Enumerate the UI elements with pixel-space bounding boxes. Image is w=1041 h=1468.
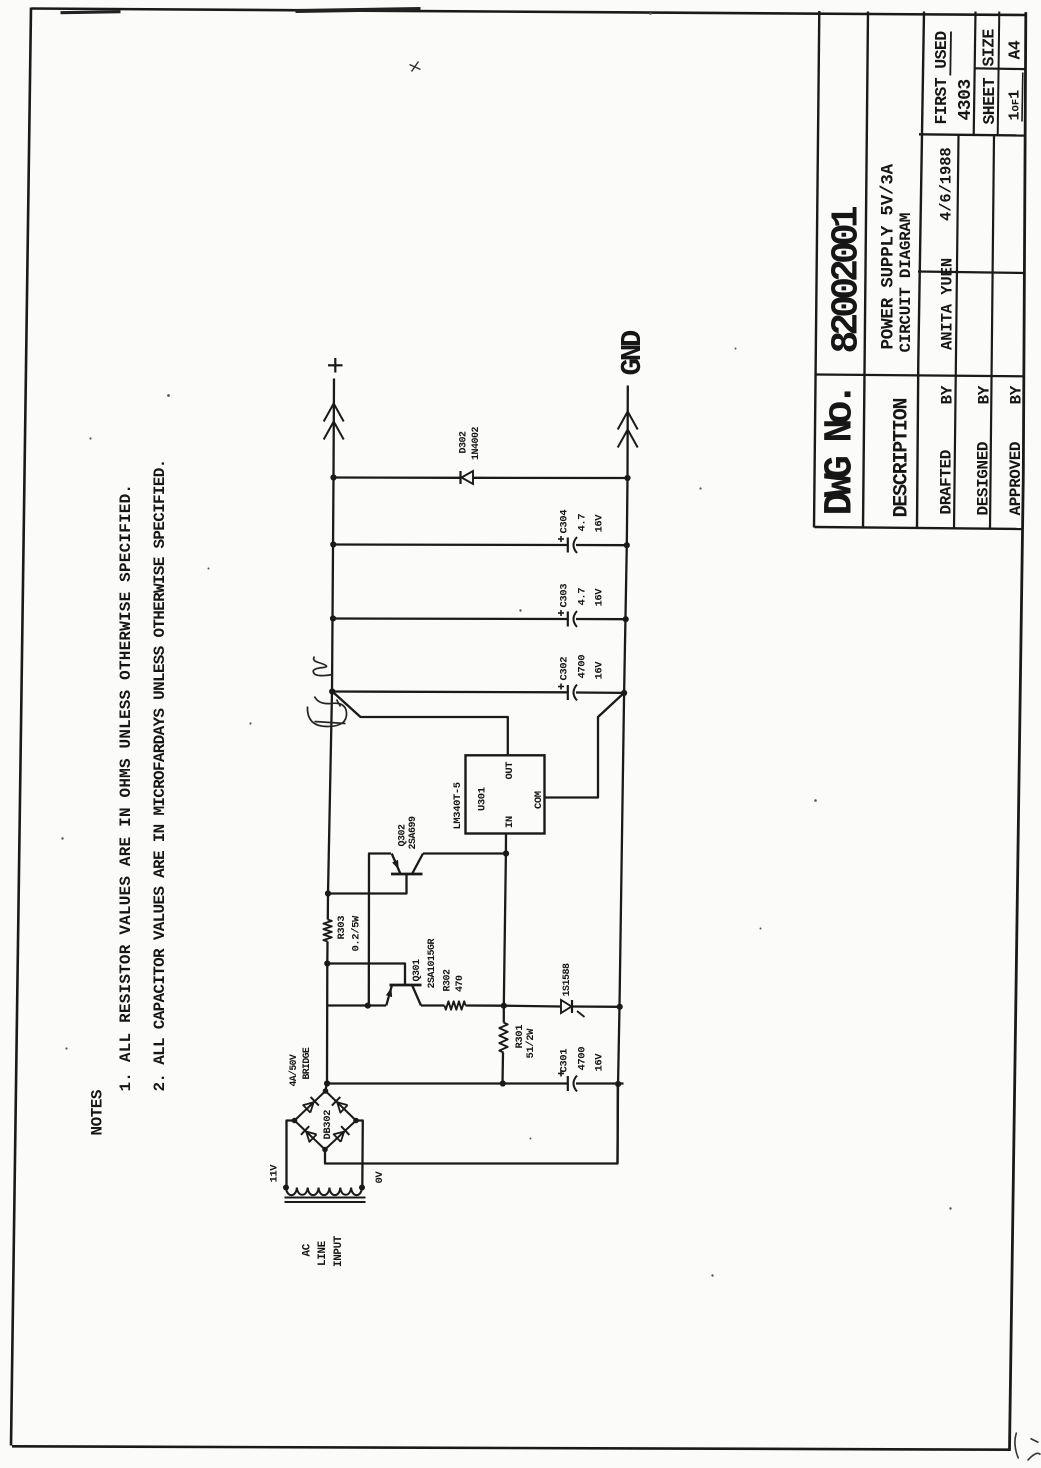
label AC LINE INPUT	[301, 1235, 345, 1267]
svg-text:470: 470	[455, 974, 466, 991]
node C304 top junction	[330, 541, 336, 547]
svg-text:11V: 11V	[268, 1163, 280, 1182]
diode D301 1S1588	[561, 1000, 585, 1017]
svg-text:Q301: Q301	[412, 958, 423, 981]
svg-text:4.7: 4.7	[576, 513, 588, 531]
svg-text:DWG No.: DWG No.	[818, 388, 863, 515]
wire input junction to D301	[503, 1004, 560, 1007]
svg-text:BY: BY	[975, 385, 993, 404]
svg-text:51/2W: 51/2W	[525, 1027, 537, 1058]
node C303 ground junction	[622, 616, 628, 622]
svg-text:82002001: 82002001	[825, 206, 868, 353]
label + C303 4.7 16V	[558, 583, 606, 615]
svg-text:BY: BY	[938, 385, 956, 404]
resistor R301 (input line)	[499, 1005, 507, 1083]
label R303 0.2/5W	[336, 914, 363, 951]
svg-text:16V: 16V	[593, 587, 605, 606]
node C302 ground junction	[621, 689, 627, 695]
node input line junction at R302/D301 chain	[500, 1002, 506, 1008]
svg-text:LINE: LINE	[317, 1240, 329, 1266]
svg-text:16V: 16V	[593, 1052, 605, 1071]
capacitor C301	[567, 1075, 623, 1091]
node Q301 base rail junction	[324, 960, 330, 966]
wire bridge minus to ground rail	[325, 1085, 618, 1163]
label R302 470	[442, 968, 466, 991]
label Q302 2SA699	[397, 815, 419, 849]
transistor Q301 2SA1015GR	[385, 985, 421, 1006]
svg-text:2SA1015GR: 2SA1015GR	[427, 938, 438, 988]
node Q302 base rail junction	[324, 890, 330, 896]
svg-text:0V: 0V	[374, 1170, 386, 1183]
svg-text:OUT: OUT	[504, 761, 516, 779]
wire D302 to ground rail	[473, 476, 628, 479]
node input line junction at Q2 collector	[502, 850, 508, 856]
svg-text:DESCRIPTION: DESCRIPTION	[890, 398, 913, 517]
op-amp U301 LM340T-5 regulator box	[465, 755, 544, 833]
svg-text:2. ALL CAPACITOR VALUES ARE IN: 2. ALL CAPACITOR VALUES ARE IN MICROFARD…	[151, 459, 169, 1091]
capacitor C302 branch wire upper	[332, 690, 567, 693]
capacitor C304 branch wire upper	[333, 543, 567, 546]
label + C304 4.7 16V	[558, 509, 606, 541]
diode D302 branch wire upper	[333, 476, 460, 479]
node D302 ground junction	[624, 474, 630, 480]
svg-text:SHEET: SHEET	[980, 77, 999, 124]
label R301 51/2W	[514, 1024, 537, 1058]
wire D301 to ground rail	[572, 1005, 620, 1008]
svg-text:Q302: Q302	[397, 823, 408, 846]
capacitor C301 branch wire upper	[327, 1082, 567, 1084]
svg-text:DESIGNED: DESIGNED	[974, 441, 992, 515]
svg-text:C301: C301	[558, 1048, 570, 1072]
svg-text:1N4002: 1N4002	[471, 426, 482, 460]
svg-text:R302: R302	[442, 968, 453, 991]
wire main positive rail	[325, 941, 328, 1083]
wire Q301 collector to R302	[421, 1004, 445, 1006]
svg-text:1OF1: 1OF1	[1006, 89, 1023, 120]
svg-text:4700: 4700	[576, 1046, 588, 1070]
wire regulator input line	[503, 833, 505, 1005]
svg-text:DRAFTED: DRAFTED	[937, 450, 955, 514]
svg-text:APPROVED: APPROVED	[1007, 441, 1025, 515]
svg-text:C303: C303	[558, 583, 570, 607]
capacitor C302	[567, 684, 623, 700]
svg-text:C304: C304	[558, 509, 570, 533]
resistor R302	[444, 1001, 465, 1009]
svg-text:SIZE: SIZE	[979, 28, 998, 66]
wire bridge plus stub	[325, 1083, 326, 1091]
label + output	[328, 358, 343, 373]
transistor Q302 2SA699	[391, 853, 423, 874]
wire regulator OUT to positive rail	[332, 691, 508, 755]
svg-text:4.7: 4.7	[576, 587, 588, 605]
svg-text:CIRCUIT DIAGRAM: CIRCUIT DIAGRAM	[897, 212, 915, 352]
wire Q302 base lead	[328, 874, 407, 894]
node Q302 emitter tie junction	[364, 1002, 370, 1008]
svg-text:4A/50V: 4A/50V	[288, 1054, 299, 1086]
svg-text:GND: GND	[616, 330, 649, 375]
svg-text:NOTES: NOTES	[88, 1089, 106, 1135]
bridge rectifier DB302	[291, 1088, 358, 1152]
svg-text:FIRST USED: FIRST USED	[932, 30, 951, 124]
svg-text:1. ALL RESISTOR VALUES ARE IN: 1. ALL RESISTOR VALUES ARE IN OHMS UNLES…	[117, 483, 135, 1091]
capacitor C303 branch wire upper	[333, 617, 567, 620]
label 4A/50V BRIDGE	[288, 1047, 312, 1086]
wire regulator COM to ground	[544, 693, 623, 798]
wire transformer top terminal to bridge AC1	[286, 1120, 295, 1187]
svg-text:POWER SUPPLY 5V/3A: POWER SUPPLY 5V/3A	[878, 163, 898, 349]
svg-text:4700: 4700	[576, 654, 588, 678]
svg-text:U301: U301	[476, 787, 488, 811]
svg-text:4/6/1988: 4/6/1988	[937, 147, 955, 221]
svg-text:D302: D302	[458, 430, 469, 453]
svg-text:R301: R301	[514, 1024, 526, 1048]
wire Q301 chain upper (positive rail to emitter)	[327, 1004, 386, 1006]
svg-text:DB302: DB302	[322, 1109, 334, 1139]
svg-text:BRIDGE: BRIDGE	[301, 1047, 312, 1079]
svg-text:IN: IN	[504, 816, 516, 828]
svg-text:16V: 16V	[593, 660, 605, 679]
node C304 ground junction	[623, 542, 629, 548]
node R301 left junction	[499, 1080, 505, 1086]
node C301 bottom junction	[615, 1080, 621, 1086]
capacitor C303	[567, 611, 625, 627]
svg-text:4303: 4303	[956, 79, 976, 120]
svg-text:0.2/5W: 0.2/5W	[350, 914, 362, 951]
wire Q302 collector to input line	[423, 852, 506, 854]
node bridge plus junction	[324, 1080, 330, 1086]
node C303 top junction	[329, 615, 335, 621]
wire ground rail	[617, 385, 627, 1163]
svg-text:BY: BY	[1007, 385, 1025, 404]
node D301 ground junction	[616, 1003, 622, 1009]
svg-text:AC: AC	[301, 1243, 313, 1256]
svg-text:2SA699: 2SA699	[408, 815, 419, 849]
ground output terminal arrow	[617, 411, 637, 447]
transformer T1 secondary winding	[283, 1184, 366, 1202]
wire R302 to input line junction	[465, 1004, 503, 1007]
handwritten scribble annotation	[307, 656, 346, 726]
capacitor C304	[567, 537, 626, 553]
resistor R303 (in positive rail)	[323, 919, 331, 941]
svg-text:C302: C302	[558, 656, 570, 680]
svg-text:LM340T-5: LM340T-5	[452, 782, 464, 829]
wire Q302 emitter link	[368, 853, 390, 1005]
node D302 top junction	[330, 474, 336, 480]
svg-text:COM: COM	[533, 791, 545, 809]
label + C301 4700 16V	[558, 1046, 606, 1076]
wire transformer bottom terminal to bridge AC2 (crosses minus wire)	[355, 1120, 362, 1187]
svg-text:A4: A4	[1005, 40, 1024, 59]
node C302 top junction	[329, 688, 335, 694]
wire Q301 base lead	[327, 963, 405, 985]
svg-text:ANITA YUEN: ANITA YUEN	[938, 257, 956, 349]
label Q301 2SA1015GR	[412, 938, 438, 988]
diode D302 1N4002	[460, 471, 473, 484]
svg-text:16V: 16V	[593, 513, 605, 532]
svg-text:INPUT: INPUT	[333, 1235, 345, 1267]
positive output terminal arrow	[323, 403, 343, 439]
label + C302 4700 16V	[558, 654, 606, 689]
label D302 1N4002	[458, 426, 482, 460]
svg-text:1S1588: 1S1588	[562, 962, 573, 996]
svg-text:R303: R303	[336, 915, 348, 939]
